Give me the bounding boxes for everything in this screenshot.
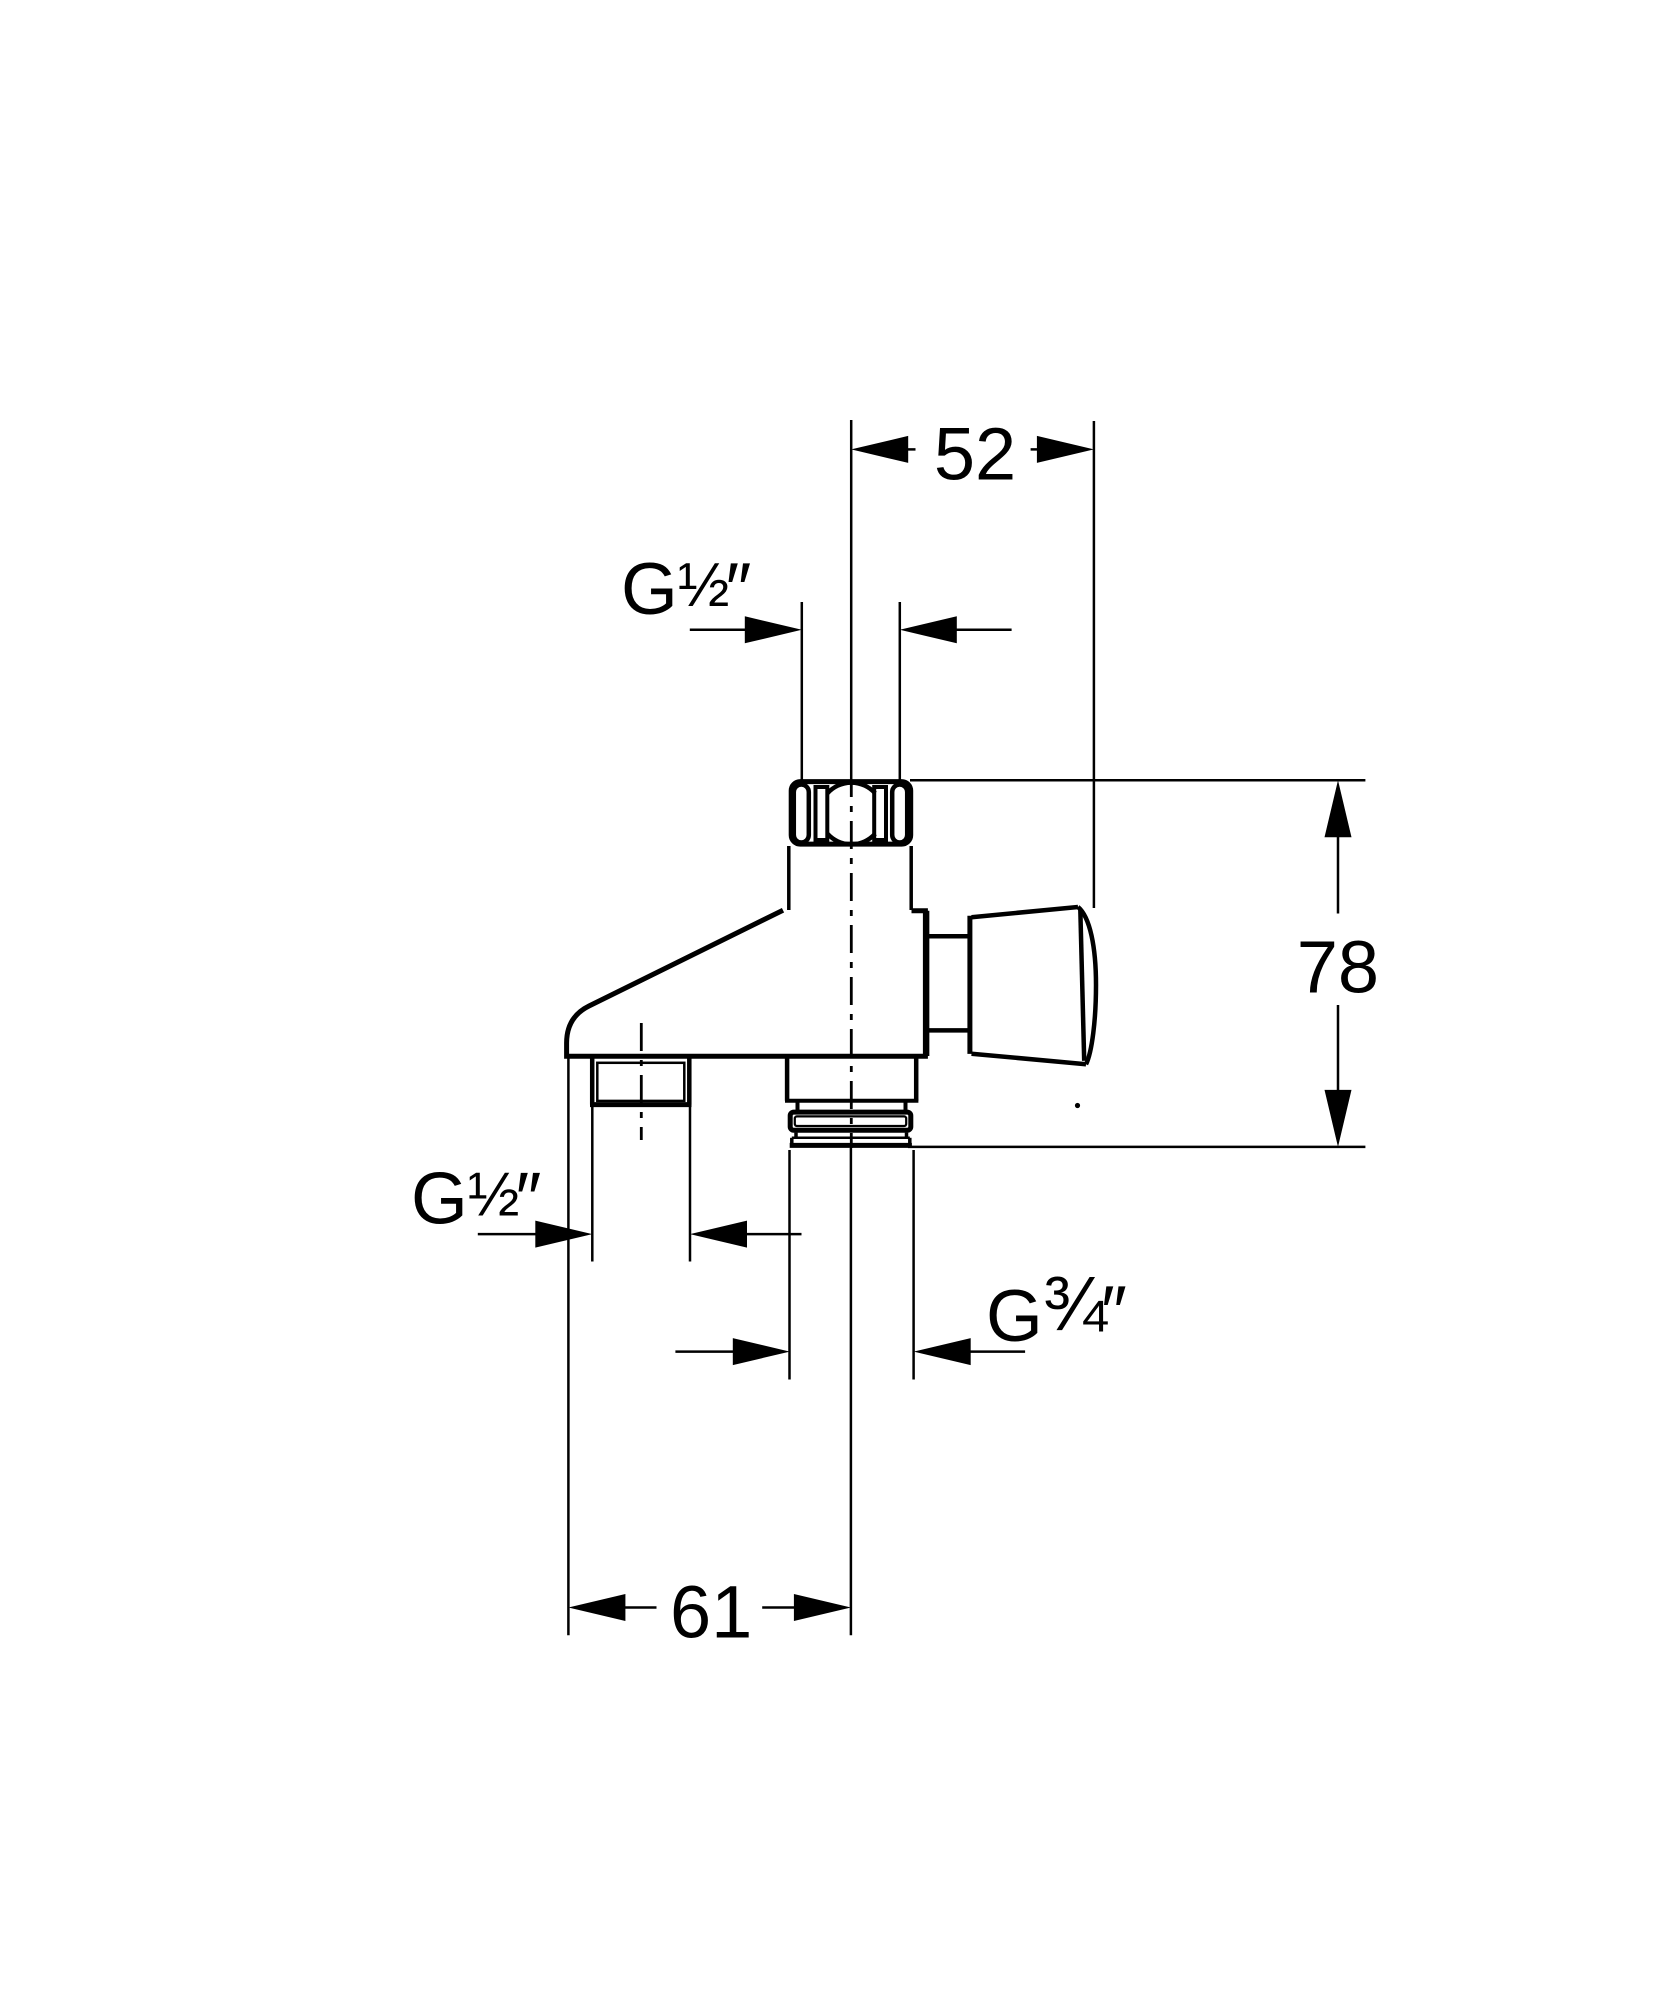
G1/2 bottom: right arrow tail [744, 1233, 802, 1236]
G1/2 top: left extension line [801, 602, 804, 780]
bottom outlet: shoulder line [785, 1099, 918, 1103]
G3/4: right arrow tail [967, 1350, 1025, 1353]
dimension 78: bottom arrowhead [1325, 1090, 1352, 1147]
left outlet: centerline [640, 1023, 643, 1140]
knob: top edge [972, 907, 1079, 917]
hex nut: right facet capsule [892, 785, 907, 843]
svg-text:G¾″: G¾″ [986, 1261, 1127, 1357]
dimension 52: left extension line (centerline above nut) [850, 420, 853, 780]
bottom outlet: groove2 left [794, 1133, 798, 1138]
knob: face edge line [1080, 909, 1084, 1061]
knob: bottom edge [972, 1054, 1087, 1065]
left outlet: inner chamfer rectangle [597, 1063, 684, 1101]
G3/4: left arrow tail [675, 1350, 735, 1353]
G3/4: right arrowhead [914, 1338, 971, 1365]
dimension 78: upper dimension line [1337, 835, 1340, 914]
bottom outlet: thread collar inner line [795, 1116, 906, 1126]
hex nut: left facet capsule [794, 785, 809, 843]
dimension 52: left tail stub [906, 448, 916, 451]
G1/2 bottom: right extension line [689, 1105, 692, 1262]
G3/4: left arrowhead [733, 1338, 790, 1365]
main centerline through valve [850, 781, 853, 1148]
valve stem: top line [928, 934, 970, 939]
svg-text:52: 52 [934, 413, 1016, 496]
G1/2 top: right arrow tail [953, 629, 1012, 632]
stray centerline dot right of knob [1075, 1103, 1080, 1108]
G3/4: right extension line [912, 1150, 915, 1380]
valve body outline [567, 910, 926, 1056]
valve body right edge (thick) [924, 911, 930, 1056]
main centerline solid lower part (61 right extension) [850, 1148, 853, 1635]
hex nut: central facet bottom chamfer arc [828, 834, 876, 845]
dimension 52: left arrowhead [851, 436, 908, 463]
dimension 78: top arrowhead [1325, 780, 1352, 837]
hex nut: left inner facet strip [816, 787, 828, 840]
dimension 52: right tail stub [1031, 448, 1039, 451]
left outlet: right edge [687, 1058, 692, 1105]
left outlet: left edge [590, 1058, 595, 1105]
bottom outlet: upper right edge [914, 1058, 919, 1101]
G1/2 top: left arrow tail [690, 629, 748, 632]
dimension 61: left arrowhead [568, 1594, 625, 1621]
G1/2 bottom: left arrow tail [478, 1233, 538, 1236]
dimension 61: right tail [762, 1606, 797, 1609]
dimension 78: lower dimension line [1337, 1005, 1340, 1092]
dimension 61: right arrowhead [794, 1594, 851, 1621]
G1/2 bottom: left extension line [591, 1105, 594, 1262]
G1/2 top: left arrowhead [745, 616, 802, 643]
bottom outlet: groove2 right [905, 1133, 909, 1138]
svg-text:G½″: G½″ [621, 549, 751, 630]
hex nut: outer body [791, 782, 911, 845]
bottom outlet: lip top line [792, 1137, 910, 1140]
valve stem: bottom line [928, 1028, 970, 1033]
G1/2 top: right extension line [899, 602, 902, 780]
knob: left edge [967, 916, 972, 1054]
bottom outlet: lip right edge [908, 1138, 912, 1146]
bottom outlet: upper left edge [785, 1058, 790, 1101]
svg-text:61: 61 [670, 1571, 752, 1654]
svg-text:78: 78 [1297, 926, 1379, 1009]
dimension 78: bottom extension line [908, 1146, 1365, 1149]
G1/2 top: right arrowhead [900, 616, 957, 643]
knob: outer face arc [1078, 907, 1096, 1064]
G3/4: left extension line [788, 1150, 791, 1380]
G1/2 bottom: right arrowhead [690, 1221, 747, 1248]
dimension 61: left tail [622, 1606, 657, 1609]
valve neck: right edge [909, 846, 913, 910]
dimension 78: top extension line [910, 779, 1365, 782]
left outlet: bottom thick edge [590, 1102, 692, 1107]
dimension 61: left extension line [567, 1058, 570, 1635]
bottom outlet: lip bottom thick edge [790, 1143, 912, 1148]
bottom outlet: groove left [796, 1101, 800, 1111]
hex nut: right inner facet strip [874, 787, 886, 840]
bottom outlet: thread collar [790, 1112, 911, 1130]
bottom outlet: lip left edge [790, 1138, 794, 1146]
valve neck: left edge [787, 846, 791, 910]
dimension 52: right arrowhead [1037, 436, 1094, 463]
hex nut: central facet top chamfer arc [828, 783, 876, 794]
svg-text:G½″: G½″ [411, 1159, 541, 1240]
G1/2 bottom: left arrowhead [535, 1221, 592, 1248]
bottom outlet: groove right [904, 1101, 908, 1111]
dimension 52: right extension line [1093, 421, 1096, 908]
